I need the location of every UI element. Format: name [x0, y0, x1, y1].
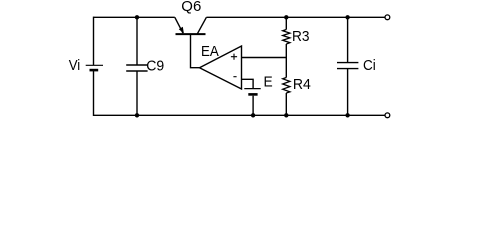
wire E to bottom rail — [252, 96, 254, 116]
wire R4 to bottom rail — [285, 93, 287, 115]
junction dot bottom R4 — [284, 113, 288, 117]
junction dot top R3 — [284, 15, 288, 19]
wire Ci branch upper — [347, 17, 349, 62]
battery E short plate — [248, 93, 257, 96]
junction dot top C9 — [135, 15, 139, 19]
wire left branch lower (Vi bottom) — [93, 70, 95, 116]
wire base lead down — [191, 34, 200, 68]
transistor Q2 emitter wire — [175, 17, 183, 33]
wire R3 to R4 (divider middle) — [285, 44, 287, 78]
resistor R3 zigzag — [283, 30, 290, 45]
junction dot bottom C9 — [135, 113, 139, 117]
op-amp EA triangle — [200, 46, 242, 89]
transistor Q6 collector wire — [197, 17, 206, 34]
svg-text:E: E — [264, 73, 273, 90]
wire C9 branch upper — [136, 17, 138, 65]
svg-text:Vi: Vi — [69, 57, 81, 74]
transistor Q6 emitter arrowhead — [179, 27, 184, 34]
terminal bottom-right — [385, 113, 390, 118]
junction dot bottom E — [251, 113, 255, 117]
capacitor Ci bottom plate — [337, 68, 358, 70]
battery E long plate — [244, 88, 260, 90]
capacitor C9 bottom plate — [126, 70, 147, 72]
svg-text:R4: R4 — [293, 76, 311, 93]
svg-text:Q6: Q6 — [181, 0, 201, 15]
capacitor Ci top plate — [337, 62, 358, 64]
battery Vi long plate — [86, 64, 103, 66]
capacitor C9 top plate — [126, 64, 147, 66]
svg-text:EA: EA — [201, 43, 219, 60]
op-amp minus sign — [233, 76, 236, 78]
battery Vi short plate — [90, 69, 99, 72]
wire C9 branch lower — [136, 71, 138, 115]
wire op-amp minus input to E — [242, 79, 254, 88]
svg-text:C9: C9 — [146, 58, 164, 75]
junction dot bottom Ci — [345, 113, 349, 117]
wire top rail right — [206, 16, 385, 18]
wire bottom rail — [94, 114, 386, 116]
wire R3 branch top — [285, 17, 287, 29]
transistor Q6 base bar — [176, 33, 206, 35]
resistor R4 zigzag — [283, 78, 290, 94]
op-amp plus sign — [231, 54, 237, 60]
terminal top-right — [385, 15, 390, 20]
junction dot top Ci — [345, 15, 349, 19]
wire Ci branch lower — [347, 69, 349, 116]
svg-text:Ci: Ci — [363, 57, 376, 74]
wire op-amp plus input to divider — [242, 57, 287, 59]
svg-text:R3: R3 — [292, 28, 310, 45]
wire left branch upper (Vi top) — [93, 17, 95, 66]
wire top rail left — [94, 16, 175, 18]
